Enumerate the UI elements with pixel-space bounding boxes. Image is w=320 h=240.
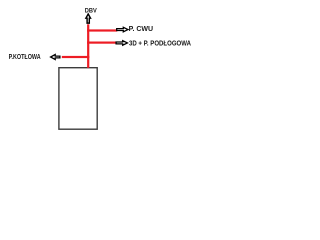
svg-text:DBV: DBV [85, 8, 97, 15]
arrow 3D+P.PODLOGOWA (right block arrow) [116, 41, 127, 46]
pipe branch 3D+P.PODLOGOWA [87, 42, 117, 44]
pipe main vertical [87, 24, 89, 68]
valve arrow DBV (up block arrow) [86, 14, 91, 23]
svg-text:3D + P. PODŁOGOWA: 3D + P. PODŁOGOWA [129, 41, 191, 48]
arrow P.CWU (right block arrow) [117, 27, 128, 32]
svg-text:P.KOTŁOWA: P.KOTŁOWA [9, 54, 41, 61]
arrow P.KOTLOWA (left block arrow) [51, 55, 60, 60]
boiler rectangle [59, 68, 97, 130]
pipe branch P.KOTLOWA [62, 56, 90, 58]
svg-text:P. CWU: P. CWU [129, 26, 153, 33]
pipe branch P.CWU [87, 29, 117, 31]
